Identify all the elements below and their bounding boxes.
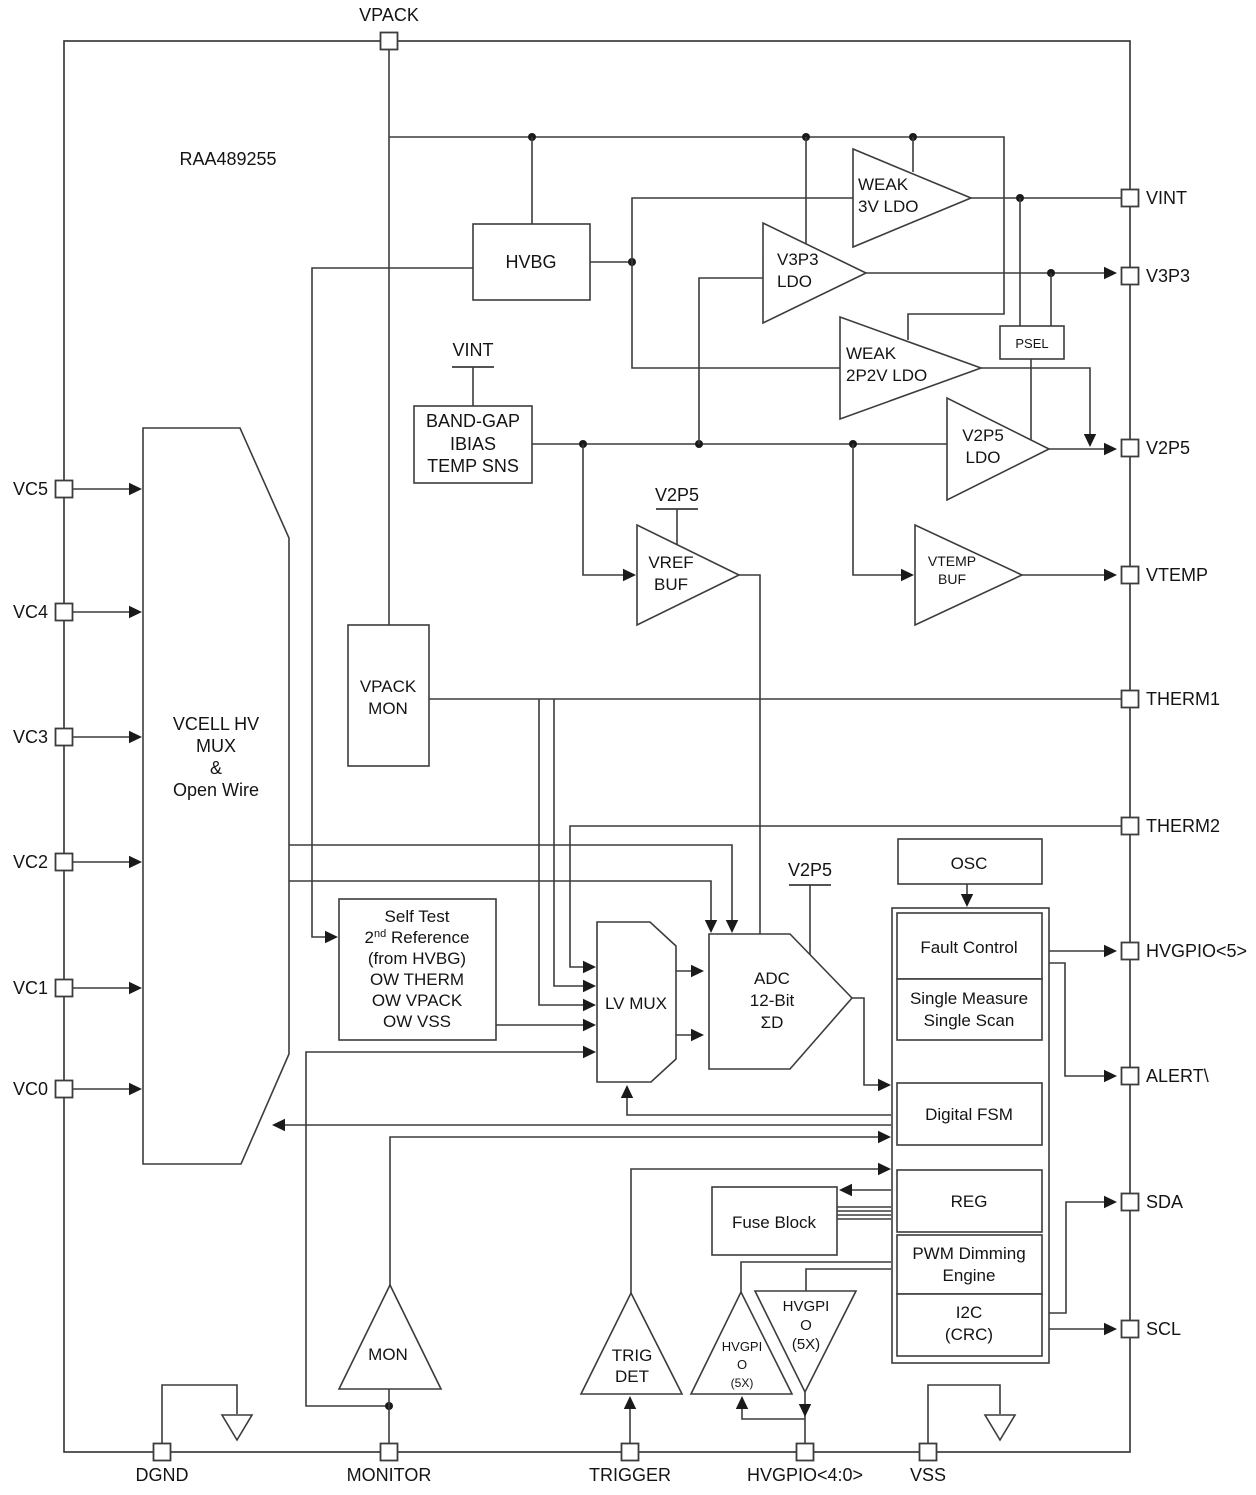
svg-text:LDO: LDO <box>966 448 1001 467</box>
wire REG to Fuse Block <box>843 1189 891 1191</box>
svg-text:BUF: BUF <box>938 571 966 587</box>
svg-text:BAND-GAP: BAND-GAP <box>426 411 520 431</box>
svg-text:(5X): (5X) <box>731 1376 754 1390</box>
driver HVGPIO 5X input buffer <box>691 1292 792 1394</box>
block Fuse Block <box>712 1187 837 1255</box>
node bias-VREF junction <box>579 440 587 448</box>
arrow OSC into digital block <box>961 894 973 907</box>
wire TRIG DET output <box>631 1169 887 1293</box>
svg-text:MON: MON <box>368 1345 408 1364</box>
svg-text:PWM Dimming: PWM Dimming <box>912 1244 1025 1263</box>
block ADC 12-Bit SigmaDelta <box>709 934 852 1069</box>
node HVBG output junction <box>628 258 636 266</box>
wire VC5 input <box>73 488 138 490</box>
node VPACK-V3P3LDO junction <box>802 133 810 141</box>
block LV MUX <box>597 922 676 1082</box>
arrow into ALERT pin <box>1104 1070 1117 1082</box>
node VPACK-HVBG junction <box>528 133 536 141</box>
ground symbol DGND <box>222 1415 252 1440</box>
wire THERM1 net <box>429 698 1122 700</box>
svg-text:REG: REG <box>951 1192 988 1211</box>
pin VC0 <box>56 1081 73 1098</box>
svg-text:OW VPACK: OW VPACK <box>372 991 463 1010</box>
svg-text:HVBG: HVBG <box>505 252 556 272</box>
pin VSS <box>920 1444 937 1461</box>
svg-text:VTEMP: VTEMP <box>928 553 976 569</box>
node MONITOR junction <box>385 1402 393 1410</box>
arrow VC0 into VCELL mux <box>129 1083 142 1095</box>
svg-text:(from HVBG): (from HVBG) <box>368 949 466 968</box>
supply V2P5 bar (VREF) <box>656 508 698 510</box>
svg-text:MONITOR: MONITOR <box>347 1465 432 1485</box>
wire VPACK to WEAK 3V LDO supply <box>912 137 914 172</box>
wire SCL output <box>1049 1328 1115 1330</box>
supply VINT bar <box>452 366 494 368</box>
wire VPACK rail <box>389 137 1004 340</box>
arrow Self Test into LV MUX <box>583 1019 596 1031</box>
node VPACK-WEAK3V junction <box>909 133 917 141</box>
svg-text:V2P5: V2P5 <box>1146 438 1190 458</box>
svg-text:VC3: VC3 <box>13 727 48 747</box>
svg-text:V2P5: V2P5 <box>788 860 832 880</box>
arrow into VTEMP BUF <box>901 569 914 581</box>
svg-text:V3P3: V3P3 <box>1146 266 1190 286</box>
ground symbol VSS <box>985 1415 1015 1440</box>
wire fuse bus line 4 <box>837 1218 891 1220</box>
op-amp VTEMP BUF <box>915 525 1022 625</box>
arrow into VTEMP pin <box>1104 569 1117 581</box>
wire VREF BUF output to ADC <box>739 575 760 934</box>
svg-text:VPACK: VPACK <box>359 5 419 25</box>
wire HVGPIO<4:0> sense branch <box>742 1399 805 1419</box>
svg-text:OSC: OSC <box>951 854 988 873</box>
arrow THERM1b into LV MUX <box>583 980 596 992</box>
svg-text:&: & <box>210 758 222 778</box>
op-amp WEAK 2P2V LDO <box>840 317 981 419</box>
wire HVGPIO out-driver output <box>741 1262 891 1292</box>
wire VINT to PSEL <box>1019 198 1021 326</box>
wire bias to VREF BUF <box>583 444 632 575</box>
block Digital FSM <box>897 1083 1042 1145</box>
arrow VC1 into VCELL mux <box>129 982 142 994</box>
svg-text:Single Measure: Single Measure <box>910 989 1028 1008</box>
amplifier MON <box>339 1285 441 1389</box>
wire VSS to ground <box>928 1385 1000 1444</box>
wire LV MUX output 1 <box>676 970 700 972</box>
block Single Measure Single Scan <box>897 979 1042 1040</box>
block REG <box>897 1170 1042 1232</box>
arrow THERM1 into LV MUX <box>583 999 596 1011</box>
arrow MONITOR into LV MUX <box>583 1046 596 1058</box>
wire V3P3 LDO output <box>866 272 1115 274</box>
svg-text:V2P5: V2P5 <box>962 426 1004 445</box>
svg-text:12-Bit: 12-Bit <box>750 991 795 1010</box>
pin SDA <box>1122 1194 1139 1211</box>
wire THERM1 pin branch to LV MUX <box>554 699 592 986</box>
block HVBG <box>473 224 590 300</box>
wire fuse bus line 2 <box>837 1210 891 1212</box>
wire HVBG output <box>590 261 633 263</box>
wire MONITOR sense branch <box>306 1052 592 1406</box>
arrow LVMUX2 into ADC <box>691 1029 704 1041</box>
block BAND-GAP IBIAS TEMP SNS <box>414 406 532 483</box>
wire MON signal <box>390 1137 887 1285</box>
svg-text:2P2V LDO: 2P2V LDO <box>846 366 927 385</box>
arrow into V2P5 pin <box>1104 443 1117 455</box>
svg-text:Engine: Engine <box>943 1266 996 1285</box>
wire bias to V3P3 LDO input <box>699 278 763 444</box>
svg-text:IBIAS: IBIAS <box>450 434 496 454</box>
wire THERM2 net <box>570 826 1122 967</box>
svg-text:O: O <box>800 1317 812 1334</box>
svg-text:ΣD: ΣD <box>761 1013 784 1032</box>
arrow TRIG into REG <box>878 1163 891 1175</box>
pin V2P5 <box>1122 440 1139 457</box>
pin MONITOR <box>381 1444 398 1461</box>
pin VC3 <box>56 729 73 746</box>
svg-text:Fuse Block: Fuse Block <box>732 1213 817 1232</box>
supply V2P5 bar (ADC) <box>789 884 831 886</box>
pin VC2 <box>56 854 73 871</box>
node bias-V3P3in junction <box>695 440 703 448</box>
svg-text:V3P3: V3P3 <box>777 250 819 269</box>
pin VPACK <box>381 33 398 50</box>
wire VPACK to V3P3 LDO supply <box>805 137 807 245</box>
wire OSC to digital <box>966 884 968 903</box>
block PSEL <box>1000 326 1064 359</box>
wire DGND to ground <box>162 1385 237 1444</box>
svg-text:VPACK: VPACK <box>360 677 417 696</box>
wire WEAK 3V LDO output to VINT <box>971 197 1122 199</box>
op-amp VREF BUF <box>637 525 739 625</box>
svg-text:THERM1: THERM1 <box>1146 689 1220 709</box>
block PWM Dimming Engine <box>897 1235 1042 1294</box>
wire HVBG to Self Test reference <box>312 268 473 937</box>
wire WEAK 2P2V LDO output <box>981 368 1090 440</box>
svg-text:HVGPIO<4:0>: HVGPIO<4:0> <box>747 1465 863 1485</box>
arrow into VREF BUF <box>623 569 636 581</box>
wire bias to VTEMP BUF <box>853 444 910 575</box>
wire V3P3 to PSEL <box>1050 273 1052 326</box>
svg-text:VREF: VREF <box>648 553 693 572</box>
arrow into Fuse Block <box>839 1184 852 1196</box>
svg-text:MON: MON <box>368 699 408 718</box>
wire VC1 input <box>73 987 138 989</box>
svg-text:WEAK: WEAK <box>846 344 897 363</box>
pin HVGPIO<4:0> <box>797 1444 814 1461</box>
arrow VC5 into VCELL mux <box>129 483 142 495</box>
arrow into HVGPIO input driver <box>736 1396 748 1409</box>
wire fuse bus line 3 <box>837 1214 891 1216</box>
svg-text:VCELL HV: VCELL HV <box>173 714 259 734</box>
pin THERM2 <box>1122 818 1139 835</box>
arrow mux B into ADC <box>705 920 717 933</box>
pin SCL <box>1122 1321 1139 1338</box>
block VCELL HV MUX & Open Wire <box>143 428 289 1164</box>
svg-text:SDA: SDA <box>1146 1192 1183 1212</box>
block OSC <box>898 839 1042 884</box>
node V3P3-PSEL junction <box>1047 269 1055 277</box>
wire HVGPIO<4:0> stem <box>804 1392 806 1444</box>
wire VC3 input <box>73 736 138 738</box>
wire VC0 input <box>73 1088 138 1090</box>
pin VC5 <box>56 481 73 498</box>
svg-text:HVGPI: HVGPI <box>722 1339 762 1354</box>
op-amp WEAK 3V LDO <box>853 149 971 247</box>
svg-text:RAA489255: RAA489255 <box>179 149 276 169</box>
svg-text:LV MUX: LV MUX <box>605 994 667 1013</box>
wire SDA output <box>1049 1202 1115 1313</box>
svg-text:(5X): (5X) <box>792 1336 820 1353</box>
svg-text:VC4: VC4 <box>13 602 48 622</box>
svg-text:Open Wire: Open Wire <box>173 780 259 800</box>
block digital section outer <box>892 908 1049 1363</box>
node VINT-PSEL junction <box>1016 194 1024 202</box>
svg-text:HVGPI: HVGPI <box>783 1298 830 1315</box>
wire HVGPIO<5> output <box>1049 950 1115 952</box>
driver HVGPIO 5X output buffer <box>755 1291 856 1392</box>
wire FSM to VCELL mux select <box>276 1124 891 1126</box>
pin HVGPIO<5> <box>1122 943 1139 960</box>
arrow mux A into ADC <box>726 920 738 933</box>
supply V2P5 stem (VREF) <box>676 509 678 546</box>
wire TRIGGER stem <box>629 1399 631 1444</box>
svg-text:VSS: VSS <box>910 1465 946 1485</box>
arrow ADC into Digital FSM <box>878 1079 891 1091</box>
wire VTEMP BUF output <box>1022 574 1115 576</box>
svg-text:OW THERM: OW THERM <box>370 970 464 989</box>
arrow THERM2 into LV MUX <box>583 961 596 973</box>
arrow into HVGPIO<5> pin <box>1104 945 1117 957</box>
wire VC4 input <box>73 611 138 613</box>
svg-text:VINT: VINT <box>452 340 493 360</box>
svg-text:HVGPIO<5>: HVGPIO<5> <box>1146 941 1247 961</box>
wire V2P5 LDO output <box>1049 448 1115 450</box>
svg-text:O: O <box>737 1357 747 1372</box>
svg-text:Single Scan: Single Scan <box>924 1011 1015 1030</box>
pin DGND <box>154 1444 171 1461</box>
pin TRIGGER <box>622 1444 639 1461</box>
block Fault Control <box>897 913 1042 979</box>
svg-text:3V LDO: 3V LDO <box>858 197 918 216</box>
wire fuse bus line 1 <box>837 1206 891 1208</box>
wire MONITOR stem <box>388 1389 390 1444</box>
wire BAND-GAP bias rail <box>532 443 947 445</box>
svg-text:V2P5: V2P5 <box>655 485 699 505</box>
wire VCELL mux output B <box>289 881 711 929</box>
svg-text:ADC: ADC <box>754 969 790 988</box>
op-amp V2P5 LDO <box>947 398 1049 500</box>
wire FSM to LV MUX select <box>627 1088 891 1115</box>
arrow into Self Test box <box>325 931 338 943</box>
pin VC4 <box>56 604 73 621</box>
pin V3P3 <box>1122 268 1139 285</box>
svg-text:Fault Control: Fault Control <box>920 938 1017 957</box>
svg-text:DGND: DGND <box>136 1465 189 1485</box>
amplifier TRIG DET <box>581 1293 682 1394</box>
wire PSEL select output <box>1030 359 1032 442</box>
arrow LVMUX1 into ADC <box>691 965 704 977</box>
svg-text:MUX: MUX <box>196 736 236 756</box>
svg-text:SCL: SCL <box>1146 1319 1181 1339</box>
wire HVBG to WEAK LDO inputs <box>632 198 853 368</box>
wire LV MUX output 2 <box>676 1034 700 1036</box>
arrow into V3P3 pin <box>1104 267 1117 279</box>
block I2C CRC <box>897 1294 1042 1356</box>
wire THERM1 branch to LV MUX <box>539 699 592 1005</box>
pin THERM1 <box>1122 691 1139 708</box>
svg-text:LDO: LDO <box>777 272 812 291</box>
supply V2P5 stem (ADC) <box>809 885 811 956</box>
svg-text:BUF: BUF <box>654 575 688 594</box>
op-amp V3P3 LDO <box>763 223 866 323</box>
arrow MON into Digital FSM <box>878 1131 891 1143</box>
svg-text:VTEMP: VTEMP <box>1146 565 1208 585</box>
svg-text:Self Test: Self Test <box>385 907 450 926</box>
svg-text:VC2: VC2 <box>13 852 48 872</box>
svg-text:Digital FSM: Digital FSM <box>925 1105 1013 1124</box>
pin VC1 <box>56 980 73 997</box>
pin ALERT\ <box>1122 1068 1139 1085</box>
block Self Test <box>339 899 496 1040</box>
arrow into SDA pin <box>1104 1196 1117 1208</box>
svg-text:TRIG: TRIG <box>612 1346 653 1365</box>
arrow VC3 into VCELL mux <box>129 731 142 743</box>
arrow into SCL pin <box>1104 1323 1117 1335</box>
arrow select into LV MUX <box>621 1085 633 1098</box>
wire HVGPIO in-driver input <box>806 1269 891 1291</box>
svg-text:VINT: VINT <box>1146 188 1187 208</box>
wire ADC output <box>852 998 887 1085</box>
pin VTEMP <box>1122 567 1139 584</box>
svg-text:VC5: VC5 <box>13 479 48 499</box>
svg-text:I2C: I2C <box>956 1303 982 1322</box>
node bias-VTEMP junction <box>849 440 857 448</box>
svg-text:ALERT\: ALERT\ <box>1146 1066 1209 1086</box>
svg-text:OW VSS: OW VSS <box>383 1012 451 1031</box>
arrow 2P2V onto V2P5 net <box>1084 434 1096 447</box>
wire VPACK stem <box>388 49 390 625</box>
wire ALERT output <box>1049 963 1115 1076</box>
svg-text:TEMP SNS: TEMP SNS <box>427 456 519 476</box>
svg-text:VC1: VC1 <box>13 978 48 998</box>
wire VC2 input <box>73 861 138 863</box>
supply VINT stem <box>472 367 474 406</box>
svg-text:(CRC): (CRC) <box>945 1325 993 1344</box>
svg-text:VC0: VC0 <box>13 1079 48 1099</box>
pin VINT <box>1122 190 1139 207</box>
svg-text:WEAK: WEAK <box>858 175 909 194</box>
arrow select into VCELL mux <box>272 1119 285 1131</box>
svg-text:PSEL: PSEL <box>1015 336 1048 351</box>
wire VCELL mux output A <box>289 845 732 929</box>
wire Self Test output <box>496 1024 592 1026</box>
wire VPACK to HVBG <box>531 137 533 224</box>
svg-text:TRIGGER: TRIGGER <box>589 1465 671 1485</box>
arrow VC2 into VCELL mux <box>129 856 142 868</box>
svg-text:DET: DET <box>615 1367 649 1386</box>
arrow HVGPIO driver to pin <box>799 1404 811 1417</box>
block VPACK MON <box>348 625 429 766</box>
arrow TRIGGER into TRIG DET <box>624 1396 636 1409</box>
svg-text:THERM2: THERM2 <box>1146 816 1220 836</box>
arrow VC4 into VCELL mux <box>129 606 142 618</box>
